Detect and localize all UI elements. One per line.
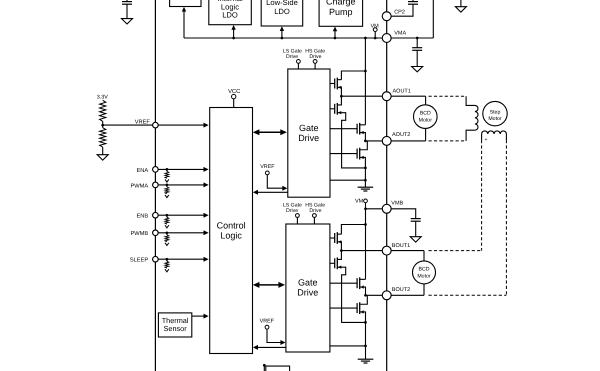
label HS Gate Drive (A) (305, 49, 325, 61)
pin PWMA (153, 182, 159, 188)
wire + arrow PWMB to Control Logic (159, 230, 209, 235)
node PWMB pulldown junction (166, 231, 169, 234)
label VREF (pin) (135, 119, 151, 125)
dashed wire winding2 left to BOUT1 (429, 140, 482, 251)
svg-text:PWMA: PWMA (130, 183, 148, 189)
label PWMA (pin) (130, 183, 148, 189)
wire BOUT1 pin to motor B (391, 250, 424, 252)
ground (earth, bridge B) (358, 359, 374, 363)
wire winding2 left stub (481, 134, 483, 140)
pin BOUT2 (382, 291, 391, 300)
label 3.3V (97, 95, 108, 101)
svg-text:VMA: VMA (394, 31, 406, 37)
svg-text:Charge: Charge (326, 0, 356, 7)
wire + arrow bus to Internal Logic LDO (231, 25, 235, 39)
label HS Gate Drive (B) (305, 203, 325, 215)
dashed wire AOUT1 to winding 1 (429, 95, 467, 97)
node VMB tap (364, 207, 367, 210)
svg-text:Sensor: Sensor (164, 324, 188, 333)
wire winding1 top connector (466, 96, 475, 105)
wire VM supply bus (184, 0, 433, 38)
resistor (pulldown on PWMB) (165, 233, 169, 242)
wire + arrow Gate Drive A sense to Control Logic (253, 190, 288, 195)
label VCC (228, 88, 240, 95)
wire M5 drain lead (337, 233, 341, 235)
wire M7 source to BOUT2 (360, 287, 366, 295)
svg-text:ENA: ENA (136, 168, 148, 174)
label winding polarity + (485, 137, 488, 143)
transistor M5 (high-side BOUT1) (330, 232, 341, 244)
label VREF (mid A) (260, 164, 275, 170)
svg-text:BCD: BCD (420, 111, 431, 117)
transistor M1 (high-side AOUT1) (330, 78, 341, 90)
ground arrow (pulldown SLEEP) (165, 269, 169, 272)
terminal VCC (232, 94, 236, 107)
label SLEEP (pin) (130, 258, 149, 264)
block Thermal Sensor (158, 313, 191, 337)
transistor M6 (low-side BOUT1) (330, 257, 341, 269)
node bridge A high-side drain (364, 70, 367, 73)
wire M8 source to sense node (360, 312, 366, 322)
wire winding1 bottom connector (466, 130, 475, 141)
pin AOUT2 (382, 136, 391, 145)
svg-text:BCD: BCD (419, 267, 430, 273)
block (bottom, cut off) (264, 365, 289, 371)
node ENA pulldown junction (166, 168, 169, 171)
bus arrow Control Logic - Gate Drive A (253, 129, 287, 135)
ground (chassis, top right) (455, 0, 466, 12)
terminal HS Gate Drive (A) (313, 60, 317, 70)
svg-text:Drive: Drive (286, 208, 298, 214)
node bridge B common source (364, 321, 367, 324)
node SLEEP pulldown junction (166, 258, 169, 261)
pin CP2 (382, 12, 391, 21)
wire M8 drain to BOUT2 (360, 295, 368, 304)
svg-text:LDO: LDO (222, 11, 238, 20)
chip boundary right edge (386, 0, 388, 371)
ground arrow (pulldown PWMA) (165, 195, 169, 198)
resistor (pulldown on PWMA) (165, 185, 169, 194)
wire + arrow Gate Drive B sense to Control Logic (253, 345, 286, 350)
motor Step Motor (483, 101, 507, 125)
label LS Gate Drive (B) (283, 203, 302, 215)
block Charge Pump (319, 0, 363, 26)
svg-text:ENB: ENB (136, 214, 148, 220)
node BOUT1 (340, 249, 343, 252)
svg-text:VREF: VREF (135, 119, 151, 125)
wire + arrow from VM bus into top block (182, 7, 186, 38)
wire + arrow Thermal Sensor to Control Logic (192, 314, 209, 319)
node bridge B sense (364, 345, 367, 348)
label PWMB (pin) (130, 231, 148, 237)
svg-text:Motor: Motor (488, 116, 502, 122)
block Gate Drive A (288, 69, 330, 197)
capacitor (charge-pump flying cap) (408, 0, 418, 4)
terminal VREF (mid A) + wire into Gate Drive A (265, 171, 287, 191)
svg-text:PWMB: PWMB (130, 231, 148, 237)
wire AOUT1 to pin (341, 95, 382, 97)
label ENB (pin) (136, 214, 148, 220)
label VMB (391, 201, 403, 207)
label LS Gate Drive (A) (283, 49, 302, 61)
capacitor (VMB bulk) with wire (391, 209, 420, 237)
wire + arrow SLEEP to Control Logic (159, 257, 209, 262)
svg-text:Drive: Drive (286, 54, 298, 60)
ground (earth, bridge A) (358, 187, 374, 191)
wire common source down (B) (365, 322, 367, 346)
wire + arrow PWMA to Control Logic (159, 182, 209, 187)
ground arrow (pulldown ENB) (165, 225, 169, 228)
label BOUT2 (392, 287, 410, 293)
svg-text:Motor: Motor (417, 273, 431, 279)
ground (chassis, VMB cap) (410, 237, 421, 242)
pin ENA (153, 167, 159, 173)
pin BOUT1 (382, 246, 391, 255)
wire + arrow VREF to Control Logic (159, 123, 209, 128)
terminal VM (mid small circle) (364, 199, 368, 224)
svg-text:Drive: Drive (309, 208, 321, 214)
motor BCD (channel B) (413, 251, 436, 296)
terminal VM (top small circle) (373, 28, 377, 40)
svg-text:CP2: CP2 (394, 9, 405, 15)
wire M1 drain lead (337, 79, 341, 81)
label VM (top) (370, 23, 379, 29)
dashed wire AOUT2 to winding 1 (429, 140, 467, 142)
transistor M4 (low-side AOUT2) (330, 148, 364, 160)
wire drain feed to M5 (341, 225, 365, 235)
pin VREF (153, 122, 159, 128)
node bridge A common source (364, 167, 367, 170)
svg-text:BOUT1: BOUT1 (392, 243, 410, 249)
ground arrow (pulldown PWMB) (165, 243, 169, 246)
label ENA (pin) (136, 168, 148, 174)
node VREF divider tap (101, 124, 104, 127)
block Internal Logic LDO (209, 0, 252, 25)
wire divider tap to VREF pin (103, 124, 153, 126)
wire sense to ground (364, 180, 366, 187)
wire + arrow ENA to Control Logic (159, 167, 209, 172)
resistor (upper divider) (100, 100, 106, 125)
block (top, cut off) above VCP arrow (170, 0, 201, 7)
wire BOUT2 to pin (366, 294, 383, 296)
svg-text:VM: VM (355, 199, 364, 205)
svg-text:Logic: Logic (220, 231, 242, 241)
wire M5 source to BOUT1 (337, 242, 341, 251)
wire M3 source to AOUT2 (360, 133, 366, 141)
svg-text:BOUT2: BOUT2 (392, 287, 410, 293)
wire AOUT2 pin to motor A (391, 140, 425, 142)
motor BCD (channel A) (414, 96, 438, 141)
wire M7 drain lead (360, 278, 366, 280)
wire + arrow ENB to Control Logic (159, 213, 209, 218)
transistor M7 (high-side BOUT2) (330, 277, 364, 289)
wire sense into Gate Drive A (330, 179, 365, 181)
chip boundary left edge (154, 0, 156, 371)
wire BOUT1 to pin (341, 250, 382, 252)
svg-text:SLEEP: SLEEP (130, 258, 149, 264)
svg-text:Pump: Pump (329, 7, 353, 17)
label AOUT1 (393, 88, 411, 94)
node VM feed A (bus) (364, 37, 367, 40)
svg-text:AOUT1: AOUT1 (393, 88, 411, 94)
wire sense into Gate Drive B (330, 345, 366, 347)
wire + arrow bus to Low-Side LDO (280, 26, 284, 39)
wire M6 source to sense rail (337, 267, 365, 322)
dashed wire winding2 right to BOUT2 (429, 140, 507, 295)
wire drain feed to M1 (341, 71, 365, 80)
pin AOUT1 (382, 92, 391, 101)
label AOUT2 (392, 132, 410, 138)
svg-text:Gate: Gate (298, 278, 318, 288)
svg-text:Drive: Drive (298, 133, 319, 143)
ground arrow (pulldown ENA) (165, 179, 169, 182)
bus arrow Control Logic - Gate Drive B (253, 282, 285, 288)
resistor (lower divider) (100, 125, 106, 155)
node BOUT2 (364, 294, 367, 297)
svg-text:LDO: LDO (274, 7, 290, 16)
wire VM feed down to M7 drain (365, 225, 367, 280)
wire common source down (364, 168, 366, 180)
block Low-Side LDO (261, 0, 303, 26)
inductor step-motor winding 2 (482, 131, 507, 134)
block Control Logic (210, 108, 253, 354)
pin SLEEP (153, 256, 159, 262)
svg-text:Step: Step (490, 109, 501, 115)
svg-text:VMB: VMB (391, 201, 403, 207)
svg-text:AOUT2: AOUT2 (392, 132, 410, 138)
wire M2 drain to AOUT1 (337, 96, 341, 105)
wire VM feed down to M3 drain (364, 71, 366, 125)
node bridge B high-side drain (364, 223, 367, 226)
svg-text:Drive: Drive (297, 288, 318, 298)
node bridge A sense (364, 179, 367, 182)
wire M1 source to AOUT1 (337, 87, 341, 96)
wire winding2 right stub (505, 134, 507, 140)
node bottom wire junction (263, 364, 266, 367)
resistor (pulldown on SLEEP) (165, 259, 169, 268)
pin PWMB (153, 230, 159, 236)
wire M4 source to sense node (360, 157, 366, 167)
terminal HS Gate Drive (B) (313, 214, 317, 224)
terminal LS Gate Drive (A) (297, 60, 301, 70)
terminal LS Gate Drive (B) (296, 214, 300, 224)
wire VMB tap to pin (366, 208, 383, 210)
wire M6 drain to BOUT1 (337, 251, 341, 260)
svg-text:Motor: Motor (419, 117, 433, 123)
node PWMA pulldown junction (166, 184, 169, 187)
terminal VREF (mid B) + wire into Gate Drive B (265, 325, 285, 345)
ground (chassis, below top-left capacitor) (122, 19, 133, 24)
wire VM bus down to bridge A (364, 38, 366, 71)
wire M2 source to sense rail (337, 113, 365, 168)
node ENB pulldown junction (166, 214, 169, 217)
wire M3 drain lead (360, 124, 366, 126)
wire sense to ground (B) (365, 346, 367, 359)
wire BOUT2 pin to motor B (391, 294, 424, 296)
transistor M8 (low-side BOUT2) (330, 302, 364, 314)
block Gate Drive B (286, 224, 330, 352)
capacitor (VMA bulk) with wire (412, 37, 422, 67)
wire M4 drain to AOUT2 (360, 141, 368, 150)
wire AOUT1 pin to motor A (391, 95, 425, 97)
pin VMB (382, 204, 391, 213)
node AOUT1 (340, 95, 343, 98)
capacitor (VCP bypass, top-left) (122, 0, 132, 19)
ground (chassis, divider) (97, 155, 108, 160)
inductor step-motor winding 1 (475, 105, 478, 130)
wire AOUT2 to pin (365, 140, 382, 142)
svg-text:VREF: VREF (260, 164, 275, 170)
wire + arrow bus to Charge Pump (333, 27, 337, 40)
ground (chassis, VMA cap) (412, 67, 423, 72)
label VMA (394, 31, 406, 37)
label CP2 (394, 9, 405, 15)
pin VMA (382, 34, 391, 43)
pin ENB (153, 212, 159, 218)
svg-text:3.3V: 3.3V (97, 95, 108, 101)
label VREF (mid B) (260, 318, 275, 324)
transistor M3 (high-side AOUT2) (330, 123, 364, 135)
resistor (pulldown on ENB) (165, 215, 169, 224)
svg-text:Gate: Gate (299, 123, 319, 133)
node AOUT2 (364, 140, 367, 143)
transistor M2 (low-side AOUT1) (330, 103, 341, 115)
svg-text:Control: Control (217, 220, 246, 230)
label VM (mid) (355, 199, 364, 205)
label BOUT1 (392, 243, 410, 249)
svg-text:VREF: VREF (260, 318, 275, 324)
resistor (pulldown on ENA) (165, 169, 169, 178)
wire CP2 to flying capacitor (391, 4, 413, 16)
svg-text:+: + (485, 137, 488, 143)
